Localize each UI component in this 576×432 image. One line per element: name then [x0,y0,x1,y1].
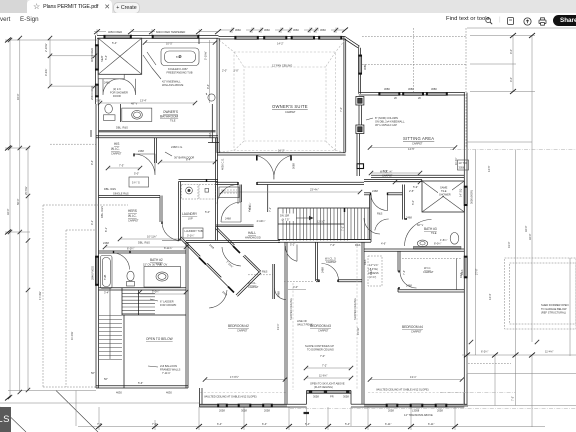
svg-text:W.I.C.: W.I.C. [424,266,431,270]
bath niche dim line [209,40,211,103]
svg-text:BEDROOM #3: BEDROOM #3 [310,324,331,328]
svg-text:8'-0¾": 8'-0¾" [434,242,441,246]
svg-text:SLOPED CEILING: SLOPED CEILING [289,298,293,320]
svg-text:7'-11⅝": 7'-11⅝" [162,371,171,375]
svg-text:5'-10⅝": 5'-10⅝" [204,51,208,60]
svg-text:4'-10¾": 4'-10¾" [257,219,266,223]
window 6046 top-left [152,35,199,38]
sitting area columns and kneewall [356,97,364,177]
svg-text:DBL. R&S: DBL. R&S [100,206,104,218]
svg-text:9'-4": 9'-4" [90,160,94,165]
svg-text:10'-5": 10'-5" [166,42,173,46]
svg-text:3060: 3060 [293,28,299,32]
left vertical dim lines [5,38,97,398]
sitting area 3 windows 3080 [379,92,400,95]
svg-text:32'-0": 32'-0" [6,208,10,215]
svg-text:2468: 2468 [406,284,412,288]
svg-text:2'-0": 2'-0" [222,69,227,73]
svg-text:TO GARAGE BELOW: TO GARAGE BELOW [541,307,567,311]
top dim line left section [94,29,218,35]
svg-text:CARPET: CARPET [128,219,139,223]
bed2/bed3 dividing wall [285,243,287,405]
svg-text:DBL. R&S: DBL. R&S [116,126,128,130]
svg-text:ACCESS: ACCESS [368,271,379,275]
svg-text:7'-0": 7'-0" [330,243,335,247]
svg-text:4050 FIXED: 4050 FIXED [108,30,122,34]
top dim text 4050 FIXED [106,30,132,34]
svg-text:6'-4": 6'-4" [217,422,222,426]
svg-text:CARPET: CARPET [411,330,422,334]
svg-text:CARPET: CARPET [412,142,423,146]
porch column mark [304,412,310,414]
left exterior wall mid [96,104,99,241]
svg-text:32'-0": 32'-0" [524,225,528,232]
svg-text:R&S: R&S [363,259,367,265]
svg-text:60" V: 60" V [417,223,424,227]
stair label [280,214,296,222]
svg-text:BEDROOM #2: BEDROOM #2 [228,324,249,328]
svg-text:2468: 2468 [221,290,228,297]
svg-text:6046 FIXED TEMPERED: 6046 FIXED TEMPERED [156,30,185,34]
svg-text:6'-11": 6'-11" [385,422,391,426]
bed4 wic walls [398,251,464,292]
top right trim line [467,27,576,29]
shower door arc [103,79,119,95]
laundry walls [179,180,219,241]
svg-text:VAULTED CEILING AT GABLE (4/12: VAULTED CEILING AT GABLE (4/12 SLOPE) [376,388,429,392]
svg-text:CARPET: CARPET [111,152,122,156]
bath dim 13-4 [100,102,195,104]
svg-text:2ft: 2ft [418,96,421,100]
svg-text:6'-2¾": 6'-2¾" [481,350,488,354]
svg-text:2468: 2468 [277,291,281,297]
bed3 bay windowed wall [307,391,352,394]
svg-text:2'-10⅝": 2'-10⅝" [44,43,48,52]
svg-text:5'-0": 5'-0" [134,172,139,176]
svg-text:5'-4": 5'-4" [104,55,108,60]
svg-text:15'-10": 15'-10" [356,327,360,335]
svg-text:CARPET: CARPET [237,329,248,333]
svg-text:R&S: R&S [262,270,268,274]
svg-text:LVP: LVP [188,217,193,221]
bath3 hall walls [364,180,422,220]
svg-text:W.I.CL. 5: W.I.CL. 5 [325,257,336,261]
svg-text:2'-0": 2'-0" [234,69,239,73]
svg-text:36" BARN DOOR: 36" BARN DOOR [174,156,194,160]
bed4 vault dash [368,392,464,394]
open to below walls [122,243,188,389]
lower stair treads (horizontal run) [122,290,155,314]
svg-text:TUB: TUB [103,275,107,280]
svg-text:(-8 FYE): (-8 FYE) [368,267,378,271]
bed3 door arc [296,245,298,262]
suite double entry doors [257,156,291,180]
stairs turn treads [99,288,122,360]
svg-text:16'-0": 16'-0" [16,93,20,100]
svg-text:3060: 3060 [320,28,326,32]
svg-text:12'-10": 12'-10" [317,220,325,224]
closet bottom wall [216,225,254,227]
svg-text:14" V⅝": 14" V⅝" [369,263,378,267]
svg-text:4'-0": 4'-0" [293,285,298,289]
acrobat menu bar [0,13,576,27]
svg-text:5'-4": 5'-4" [345,422,350,426]
svg-text:6" LADDER: 6" LADDER [160,300,174,304]
svg-text:5 ¼" S: 5 ¼" S [132,181,140,185]
svg-text:OPEN TO BELOW: OPEN TO BELOW [146,337,173,341]
stair center rail [278,223,344,225]
svg-text:4030 C.G.: 4030 C.G. [221,158,225,170]
svg-text:7'-1": 7'-1" [341,226,345,231]
svg-text:3080: 3080 [408,87,414,91]
wic door arc bed4 [400,272,417,289]
svg-text:FOR CROWN: FOR CROWN [160,303,176,307]
porch below bay [307,407,352,426]
svg-text:R&S: R&S [355,243,361,247]
svg-text:6'-1": 6'-1" [104,227,108,232]
svg-text:1'-5¾": 1'-5¾" [440,238,447,242]
svg-text:2468: 2468 [104,81,110,85]
vestibule door arcs [222,247,241,266]
svg-text:2ft: 2ft [394,96,397,100]
svg-text:LINE OF: LINE OF [297,319,308,323]
toilet [104,104,116,120]
svg-text:DBL. R&S: DBL. R&S [138,241,150,245]
svg-text:7'-2": 7'-2" [322,364,327,368]
svg-text:4630: 4630 [116,391,122,395]
svg-text:11'-4⅝": 11'-4⅝" [70,331,74,340]
svg-text:4050 FIXED: 4050 FIXED [90,48,94,62]
browser tab bar [0,0,576,13]
bed2 bottom windowed wall [200,404,288,407]
svg-text:41'-0": 41'-0" [507,241,511,248]
svg-text:25'-5⅝": 25'-5⅝" [24,186,28,195]
svg-text:7'-0": 7'-0" [339,107,343,112]
right wing long verticals [462,150,576,427]
bath hall wall under [90,130,92,137]
top dim text 6046 FIXED TEMPERED [155,30,199,34]
window on right wall lower [464,256,467,278]
bed3 wic door [322,264,339,281]
svg-text:8'-4": 8'-4" [186,158,191,162]
bath2 tub [101,256,113,289]
toilet nook wall [120,104,122,122]
svg-text:SLOPED CEILING: SLOPED CEILING [353,298,357,320]
svg-text:SHED DORMER OPEN: SHED DORMER OPEN [541,303,569,307]
svg-text:TILE: TILE [431,231,437,235]
svg-text:2468: 2468 [103,241,109,245]
svg-text:7'-2": 7'-2" [511,396,515,401]
svg-text:17'-4⅝": 17'-4⅝" [38,291,42,300]
left exterior wall lower [96,241,99,389]
svg-text:27'-0": 27'-0" [475,268,479,275]
svg-text:14'-2": 14'-2" [277,42,284,46]
wcl door arc [371,194,388,211]
svg-text:14" TRANSOMS ABOVE: 14" TRANSOMS ABOVE [404,413,433,417]
svg-text:CARPET: CARPET [382,174,393,178]
svg-text:OPEN TO SKYLIGHT ABOVE: OPEN TO SKYLIGHT ABOVE [310,382,345,386]
svg-text:56": 56" [91,371,95,375]
bath2 top wall [99,251,187,253]
svg-text:HALL: HALL [248,231,256,235]
hall closet door arc [221,202,241,222]
svg-text:CARPET: CARPET [285,110,296,114]
right vertical dim lines [470,35,535,342]
svg-text:(V-⅝"): (V-⅝") [369,275,376,279]
svg-text:OWNER'S: OWNER'S [163,110,178,114]
svg-text:W.I.CL. ⅝": W.I.CL. ⅝" [380,170,392,174]
window on right wall upper [464,186,467,206]
bottom dim line [78,407,545,430]
svg-text:56'-0": 56'-0" [16,198,20,205]
bath2 vanity [144,267,181,288]
bath2 door arc from hall [113,253,130,270]
svg-text:32'-0": 32'-0" [528,233,532,240]
svg-text:CARPET: CARPET [423,270,434,274]
svg-text:13'-1": 13'-1" [410,375,417,379]
svg-text:3056: 3056 [459,166,465,170]
left exterior wall upper [96,35,99,78]
svg-text:L3058: L3058 [412,409,420,413]
svg-text:2846 FIXED: 2846 FIXED [91,266,95,280]
dash-dot property line right [450,149,576,151]
stairwell [278,208,370,240]
svg-text:2468: 2468 [321,267,325,273]
svg-text:3080: 3080 [384,87,390,91]
bath3 vanity counter [413,246,461,249]
svg-text:5'-9": 5'-9" [413,185,418,189]
svg-text:2058: 2058 [437,409,443,413]
svg-text:14'-4": 14'-4" [488,293,492,300]
svg-text:KOHLER K-4367: KOHLER K-4367 [168,67,188,71]
svg-text:(REF STRUCTURAL): (REF STRUCTURAL) [541,311,566,315]
owner suite 3060 window dims [219,28,345,34]
svg-text:2x6 BALLOON: 2x6 BALLOON [160,364,177,368]
svg-text:56": 56" [104,377,108,381]
svg-text:3'-6": 3'-6" [96,99,101,103]
washer/dryer [182,185,216,200]
svg-text:23'-4¾": 23'-4¾" [310,188,319,192]
hall to bed4 door [364,218,380,234]
svg-text:OWNER'S SUITE: OWNER'S SUITE [272,104,308,109]
svg-text:HERS: HERS [128,209,137,213]
svg-text:4630: 4630 [166,391,172,395]
svg-text:11'-6¾": 11'-6¾" [319,374,328,378]
bath1 corridor walls [370,195,372,242]
svg-text:BATHROOM: BATHROOM [160,115,179,119]
svg-text:4'-0": 4'-0" [509,49,513,54]
svg-text:5'-6": 5'-6" [138,381,143,385]
svg-text:3056 (HDR): 3056 (HDR) [470,190,474,204]
svg-text:7'-0": 7'-0" [320,354,325,358]
svg-text:W.I.C.: W.I.C. [111,147,120,151]
dark page label box bottom-left [0,407,11,432]
svg-text:5068: 5068 [292,163,296,169]
bottom-left horizontals [0,391,199,427]
svg-text:9'-4": 9'-4" [206,84,210,89]
svg-text:@ 7.5": @ 7.5" [282,217,290,221]
svg-text:3060: 3060 [235,28,241,32]
svg-text:4'-1": 4'-1" [90,220,94,225]
svg-text:2058: 2058 [264,409,270,413]
bottom-left diagonal porch lines [56,391,98,432]
shower enclosure [98,38,142,74]
suite bottom wall [217,153,346,155]
bath2 toilet [127,271,135,286]
svg-text:3058: 3058 [313,395,319,399]
svg-text:6'-4": 6'-4" [262,422,267,426]
svg-text:2468: 2468 [208,243,215,250]
bed2 left lower wall [200,388,203,407]
shower bath3 with X [422,181,464,212]
svg-text:4'-0": 4'-0" [509,77,513,82]
closet door arc [375,219,389,230]
svg-text:7'-3": 7'-3" [119,164,124,168]
svg-text:8" (NOM) COLUMN: 8" (NOM) COLUMN [375,116,398,120]
svg-text:SITTING AREA: SITTING AREA [403,136,434,141]
svg-text:2468 C.G.: 2468 C.G. [171,145,183,149]
svg-text:5'-0": 5'-0" [411,200,415,205]
bath right-side niche walls [198,38,200,44]
svg-text:5'-2": 5'-2" [290,242,295,246]
svg-text:PR: PR [330,395,334,399]
svg-text:4'-6": 4'-6" [381,242,386,246]
svg-text:DBL. R&S: DBL. R&S [104,187,116,191]
stair treads [283,208,368,241]
svg-text:W/GLASS ABOVE: W/GLASS ABOVE [162,83,184,87]
svg-text:14" SQ: 14" SQ [459,189,463,197]
svg-text:14" SO: 14" SO [459,161,467,165]
left wall lower jog [96,78,99,104]
closet side wall [240,185,242,203]
suite left wall [217,38,219,153]
hers wic right wall [160,196,162,223]
svg-text:W.I.C.: W.I.C. [128,214,137,218]
stair direction arrow [296,217,309,219]
svg-text:8'-11¾": 8'-11¾" [164,246,173,250]
window 3080 on upper right wall [359,55,362,74]
svg-text:TILE: TILE [441,189,447,193]
tray ceiling dashed [219,40,345,152]
svg-text:CARPET: CARPET [326,260,337,264]
freestanding tub [161,48,199,66]
svg-text:14'-5": 14'-5" [487,165,491,172]
ceiling fixture circle [208,94,215,101]
svg-text:2468: 2468 [225,217,231,221]
svg-text:TILE: TILE [170,119,176,123]
svg-text:LAUNDRY TUB: LAUNDRY TUB [185,229,203,233]
bath3 toilet [450,233,459,245]
svg-text:15" OV 36" V 15" OV: 15" OV 36" V 15" OV [143,263,168,267]
diagonal closet walls [181,228,275,300]
svg-text:3058: 3058 [241,409,247,413]
svg-text:5'-4": 5'-4" [112,41,117,45]
svg-text:42" KNEEWALL: 42" KNEEWALL [162,80,181,84]
angled exterior wall [345,37,360,48]
share button [553,15,576,26]
svg-text:SEAT: SEAT [100,55,104,62]
svg-text:3058: 3058 [343,395,349,399]
svg-text:48" V: 48" V [131,102,138,106]
svg-text:3'-4": 3'-4" [104,291,109,295]
svg-text:BATH #2: BATH #2 [150,258,163,262]
svg-text:2468: 2468 [372,189,378,193]
svg-text:3060: 3060 [264,28,270,32]
bay side walls [287,391,364,408]
svg-text:ON DBL 2x4 KNEEWALL,: ON DBL 2x4 KNEEWALL, [375,119,405,123]
svg-text:FRAMED WALLS: FRAMED WALLS [160,367,181,371]
dashed wardrobe left of wic [368,256,382,286]
svg-text:4'-3⅝": 4'-3⅝" [44,69,48,76]
door jamb headers [114,153,408,289]
svg-text:0'-1¾": 0'-1¾" [187,234,194,238]
svg-text:7'-10¾": 7'-10¾" [225,260,234,269]
vanity with sink [122,108,152,121]
svg-text:W.I.CL.: W.I.CL. [248,281,257,285]
svg-text:(FLAT CEILING): (FLAT CEILING) [314,385,333,389]
his wic door arc [134,154,155,175]
svg-text:13'-4": 13'-4" [140,99,147,103]
svg-text:6'-11": 6'-11" [428,422,434,426]
bed4 bottom windowed wall [364,404,467,407]
hall top wall (below suite doors) [216,182,364,184]
laundry tub box [183,228,203,238]
svg-text:10'-11¾": 10'-11¾" [147,235,157,239]
hall bottom wall right part [278,240,371,243]
boxed window note [458,160,469,170]
bath2 bottom wall [99,288,187,290]
bath bottom wall [96,136,218,138]
svg-text:16'-2": 16'-2" [278,149,285,153]
diagonal door headers [199,246,240,293]
svg-text:(2) 2-6: (2) 2-6 [113,87,121,91]
bed3/bed4 dividing wall [362,242,364,404]
svg-text:7'-1": 7'-1" [268,207,272,212]
svg-text:SLOPE CONTINUES UP: SLOPE CONTINUES UP [305,344,334,348]
svg-text:7'-4": 7'-4" [402,270,406,275]
shower glass X [98,38,142,74]
kneewall leader [143,52,161,79]
svg-text:5'-0": 5'-0" [205,210,210,214]
svg-text:FREESTANDING TUB: FREESTANDING TUB [167,70,193,74]
svg-text:FOR SHOWER: FOR SHOWER [110,90,128,94]
svg-text:CARPET: CARPET [318,329,329,333]
svg-text:DOOR: DOOR [113,94,121,98]
svg-text:LAUNDRY: LAUNDRY [182,212,198,216]
svg-text:SINGLE R&S: SINGLE R&S [113,192,129,196]
svg-text:2'-5": 2'-5" [409,189,414,193]
svg-text:BEDROOM #4: BEDROOM #4 [402,325,423,329]
open to below bottom wall [96,386,188,388]
window 4050 top-left [104,35,132,38]
svg-text:HIS: HIS [114,142,119,146]
svg-text:TO DORMER CEILING: TO DORMER CEILING [307,347,334,351]
svg-text:DN 15R: DN 15R [280,214,289,218]
svg-text:2058: 2058 [219,409,225,413]
owner suite top wall [219,36,346,39]
hall bottom wall left part [186,241,280,243]
svg-text:17'-6½": 17'-6½" [230,375,239,379]
his wic right wall [155,138,157,163]
single r&s wall [99,196,161,198]
svg-text:5'-4": 5'-4" [305,422,310,426]
svg-text:R&S: R&S [377,212,383,216]
svg-text:VAULTED CEILING AT GABLE (4/12: VAULTED CEILING AT GABLE (4/12 SLOPE) [204,395,257,399]
sitting area top wall [359,93,465,95]
svg-text:SHOWER: SHOWER [439,192,451,196]
bath3 door arc [405,220,432,247]
shower seat [98,74,124,79]
